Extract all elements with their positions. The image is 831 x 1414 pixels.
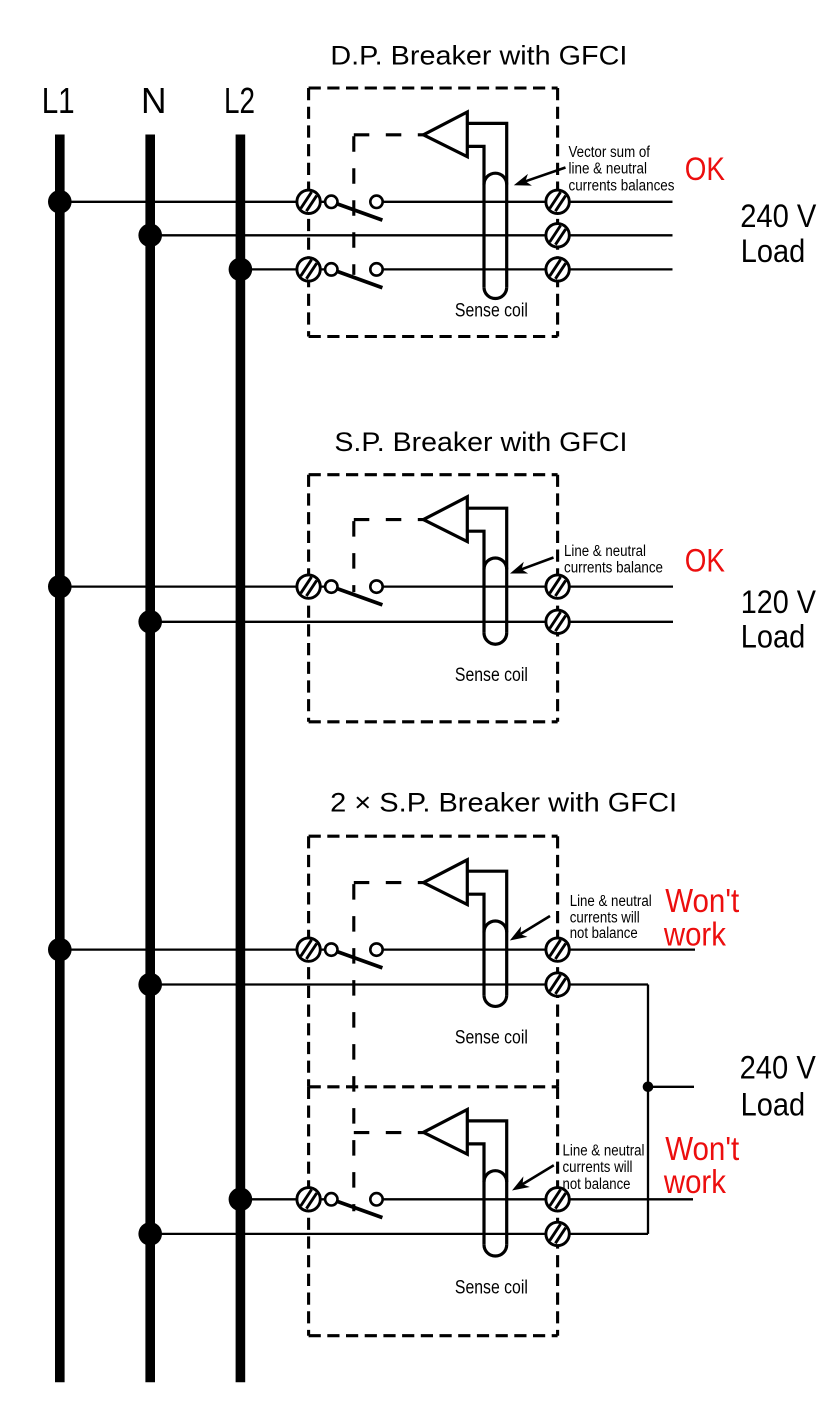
breaker U2 wire row 1 — [60, 585, 332, 587]
svg-text:line & neutral: line & neutral — [569, 161, 648, 178]
breaker U1 right terminal row 3 — [546, 258, 569, 281]
svg-text:240 V: 240 V — [740, 197, 816, 234]
breaker U3 wire row 2 — [150, 983, 648, 985]
breaker U1 switch contacts row 1 — [325, 196, 383, 208]
breaker U3 outer dashed enclosure — [309, 836, 558, 1087]
breaker U4 left terminal row 1 — [297, 1188, 320, 1211]
neutral tie wire between breakers — [647, 985, 649, 1234]
junction dot N row2 — [138, 224, 162, 248]
bus L2 vertical line — [236, 135, 246, 1383]
breaker U1 trip linkage dashed line — [354, 135, 424, 275]
svg-text:Sense coil: Sense coil — [455, 300, 528, 322]
svg-text:S.P. Breaker with GFCI: S.P. Breaker with GFCI — [334, 427, 627, 457]
svg-text:L1: L1 — [42, 81, 75, 121]
breaker U2 right terminal row 1 — [546, 575, 569, 598]
svg-text:N: N — [141, 81, 167, 121]
breaker U1 left terminal row 3 — [297, 258, 320, 281]
junction dot L1 section3 — [48, 938, 72, 962]
junction dot L1 row1 — [48, 190, 72, 214]
junction dot L2 row3 — [229, 258, 253, 282]
svg-text:120 V: 120 V — [741, 583, 816, 620]
breaker U3 wire row 1 — [60, 948, 332, 950]
svg-text:240 V: 240 V — [740, 1049, 816, 1086]
svg-text:currents balances: currents balances — [569, 178, 675, 195]
svg-text:L2: L2 — [224, 81, 255, 121]
breaker U4 sense coil loop with leads — [467, 1121, 506, 1256]
svg-text:work: work — [663, 916, 726, 953]
junction dot L2 breaker 3b — [229, 1188, 253, 1212]
svg-text:currents will: currents will — [563, 1159, 633, 1176]
breaker U4 wire row 2 — [150, 1233, 648, 1235]
svg-text:Won't: Won't — [665, 883, 739, 920]
breaker U2 sense coil loop with leads — [467, 508, 506, 644]
breaker U1 sense coil loop with leads — [467, 123, 506, 298]
svg-text:Load: Load — [741, 617, 806, 654]
breaker U4 wire row 1 — [240, 1198, 331, 1200]
breaker U4 switch contacts row 1 — [325, 1193, 383, 1205]
svg-text:Sense coil: Sense coil — [455, 1027, 528, 1049]
breaker U3 switch contacts row 1 — [325, 943, 383, 955]
svg-text:not balance: not balance — [563, 1176, 631, 1193]
breaker U1 outer dashed enclosure — [309, 88, 558, 337]
svg-text:Sense coil: Sense coil — [455, 664, 528, 686]
breaker U1 wire row 2 — [150, 234, 672, 236]
svg-text:Sense coil: Sense coil — [455, 1276, 528, 1298]
junction dot N breaker 3a — [138, 973, 162, 997]
svg-text:Line & neutral: Line & neutral — [570, 893, 652, 910]
breaker U3 right terminal row 2 — [546, 973, 569, 996]
svg-text:OK: OK — [685, 150, 725, 187]
breaker U4 open switch blade row 1 — [337, 1201, 383, 1217]
breaker U1 right terminal row 2 — [546, 224, 569, 247]
svg-text:OK: OK — [685, 542, 725, 579]
svg-text:work: work — [663, 1164, 726, 1201]
breaker U2 right terminal row 2 — [546, 610, 569, 633]
annotation arrow 2 — [510, 558, 554, 574]
breaker U1 trip amplifier (triangle) — [423, 112, 467, 157]
breaker U1 wire row 3 — [240, 268, 331, 270]
breaker U3 open switch blade row 1 — [337, 952, 383, 968]
breaker U4 right terminal row 1 — [546, 1188, 569, 1211]
svg-text:Line & neutral: Line & neutral — [563, 1143, 645, 1160]
annotation arrow 3b — [512, 1165, 554, 1190]
bus L1 vertical line — [55, 135, 65, 1383]
breaker U2 left terminal row 1 — [297, 575, 320, 598]
breaker U1 open switch blade row 3 — [337, 271, 383, 287]
junction dot L1 section2 — [48, 575, 72, 599]
bus N vertical line — [145, 135, 155, 1383]
breaker U1 switch contacts row 3 — [325, 263, 383, 275]
breaker U2 switch contacts row 1 — [325, 580, 383, 592]
annotation arrow 3a — [510, 916, 550, 941]
svg-text:currents balance: currents balance — [564, 559, 663, 576]
breaker U1 left terminal row 1 — [297, 190, 320, 213]
breaker U2 outer dashed enclosure — [309, 475, 558, 722]
junction dot N section2 — [138, 610, 162, 634]
breaker U2 open switch blade row 1 — [337, 589, 383, 605]
handle-tie / trip linkage dashed line section 3 — [354, 883, 424, 1212]
svg-text:Won't: Won't — [665, 1131, 739, 1168]
breaker U2 trip amplifier (triangle) — [423, 497, 467, 542]
breaker U4 right terminal row 2 — [546, 1222, 569, 1245]
load neutral stub wire — [648, 1086, 694, 1088]
svg-text:Line & neutral: Line & neutral — [564, 543, 646, 560]
svg-text:Load: Load — [741, 232, 806, 269]
breaker U3 trip amplifier (triangle) — [423, 860, 467, 905]
breaker U4 outer dashed enclosure — [309, 1087, 558, 1336]
annotation arrow 1 — [514, 168, 566, 186]
junction dot N breaker 3b — [138, 1222, 162, 1246]
svg-text:Load: Load — [741, 1085, 806, 1122]
breaker U4 trip amplifier (triangle) — [423, 1110, 467, 1155]
svg-text:not balance: not balance — [570, 925, 638, 942]
svg-text:D.P. Breaker with GFCI: D.P. Breaker with GFCI — [330, 41, 627, 71]
breaker U3 sense coil loop with leads — [467, 871, 506, 1006]
junction dot neutral tie — [643, 1082, 654, 1093]
breaker U2 wire row 2 — [150, 621, 673, 623]
breaker U1 wire row 1 — [60, 201, 332, 203]
breaker U2 trip linkage dashed line — [354, 520, 424, 593]
breaker U1 open switch blade row 1 — [337, 204, 383, 220]
breaker U3 right terminal row 1 — [546, 938, 569, 961]
svg-text:Vector sum of: Vector sum of — [569, 144, 651, 161]
breaker U3 left terminal row 1 — [297, 938, 320, 961]
breaker U1 right terminal row 1 — [546, 190, 569, 213]
svg-text:2 × S.P. Breaker with GFCI: 2 × S.P. Breaker with GFCI — [330, 788, 677, 818]
